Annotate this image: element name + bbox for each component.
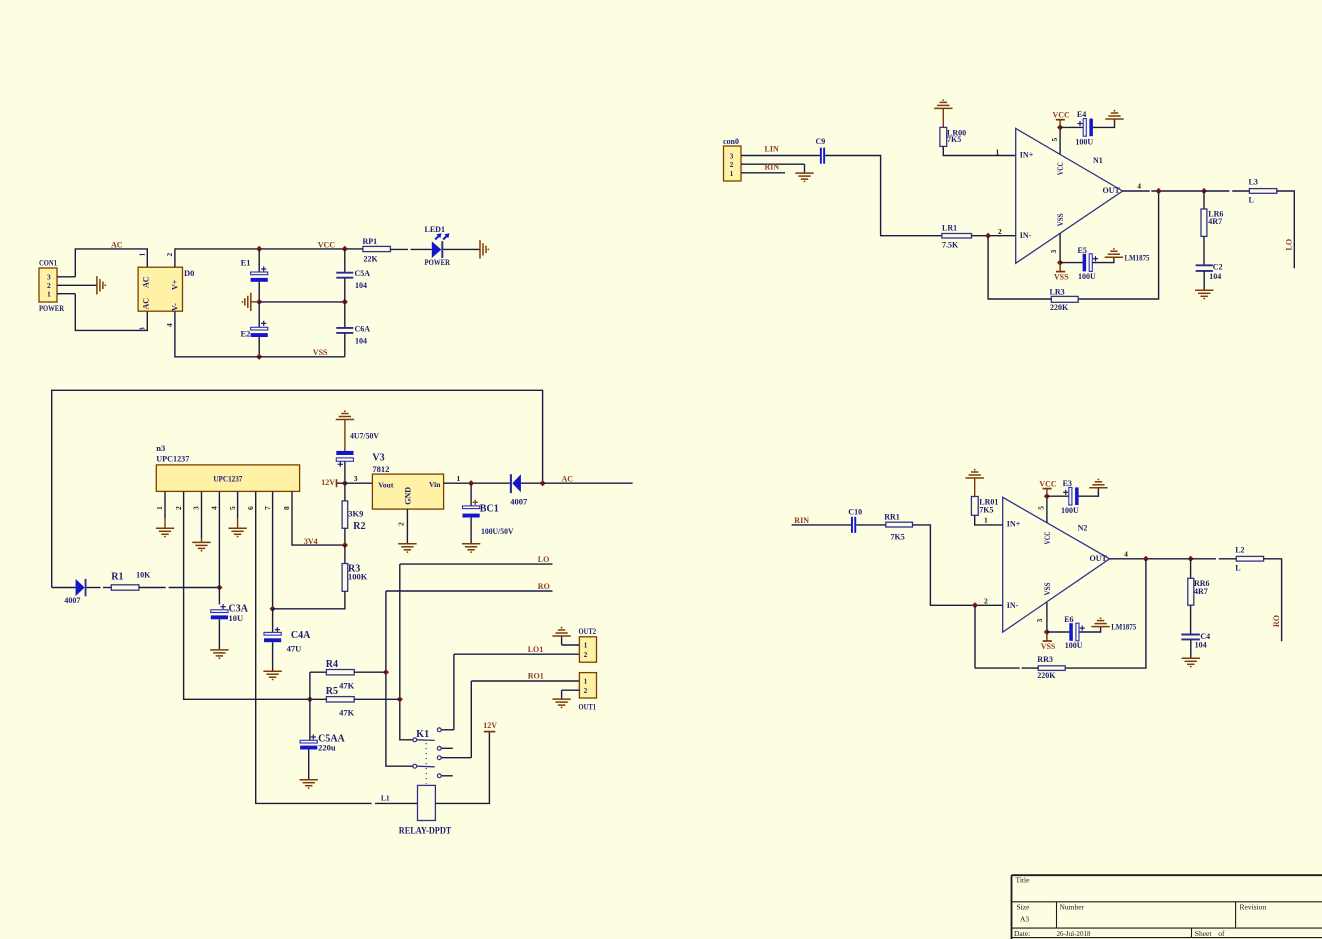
svg-text:12V: 12V	[321, 478, 335, 487]
svg-text:1: 1	[584, 678, 588, 686]
relay coil L1	[418, 785, 436, 820]
svg-text:Size: Size	[1017, 903, 1031, 912]
ground below C4A	[263, 671, 281, 680]
resistor LR01 7K5	[971, 478, 1002, 525]
pin 2 label N2	[984, 596, 988, 605]
diode 4007 (AC sense)	[510, 474, 543, 506]
svg-text:Vin: Vin	[429, 480, 441, 489]
svg-text:N1: N1	[1093, 156, 1103, 165]
capacitor C6A 104	[336, 302, 370, 357]
wire net RO1	[471, 672, 579, 682]
svg-text:4R7: 4R7	[1208, 217, 1222, 226]
N1 pin3 stub	[1049, 233, 1060, 263]
net label RO (right)	[1272, 615, 1281, 627]
svg-text:100K: 100K	[348, 572, 368, 582]
svg-text:LO: LO	[538, 555, 550, 564]
capacitor C10	[848, 507, 862, 532]
svg-text:VSS: VSS	[1041, 642, 1056, 651]
svg-text:1: 1	[47, 290, 51, 299]
capacitor C5A 104	[336, 249, 370, 302]
ground above LR00	[934, 99, 952, 108]
svg-text:LO1: LO1	[528, 645, 544, 654]
svg-text:5: 5	[1050, 138, 1059, 142]
connector con0	[723, 137, 805, 181]
junction N2 OUT RR6	[1187, 556, 1193, 562]
svg-text:Date:: Date:	[1014, 929, 1030, 938]
relay K1 switch B	[413, 764, 435, 768]
UPC1237 pins 1-8	[155, 491, 292, 518]
svg-text:E3: E3	[1063, 479, 1072, 488]
wire RIN to C10	[792, 524, 851, 526]
wire mid rail to C5A/C6A	[259, 301, 345, 303]
wire LO to relay switch A	[400, 564, 413, 740]
pin 2 label N1	[998, 227, 1002, 236]
ground below C4	[1182, 658, 1200, 667]
capacitor E3 100U	[1047, 479, 1099, 515]
net label VSS	[313, 348, 328, 357]
svg-text:4R7: 4R7	[1194, 587, 1208, 596]
svg-text:3: 3	[1049, 250, 1058, 254]
ground UPC1237 pin5	[228, 518, 246, 537]
resistor RP1 22K	[363, 237, 391, 263]
wire L3 to LO tag	[1277, 191, 1295, 268]
svg-text:CON1: CON1	[39, 258, 57, 268]
inductor L2	[1235, 546, 1263, 573]
connector OUT1	[562, 673, 597, 712]
resistor R1 10K	[111, 571, 151, 591]
ground above LR01	[966, 469, 984, 478]
wire RP1 to LED1	[390, 248, 431, 250]
svg-text:D0: D0	[184, 268, 194, 278]
capacitor C4 104	[1181, 632, 1210, 659]
junction N2 OUT feedback	[1143, 556, 1149, 562]
svg-text:100U: 100U	[1078, 272, 1096, 281]
svg-text:LR3: LR3	[1050, 287, 1065, 296]
svg-text:Revision: Revision	[1240, 903, 1267, 912]
wire V3 Vin to BC1	[444, 474, 510, 483]
inductor L3	[1249, 178, 1277, 205]
svg-text:10K: 10K	[136, 571, 151, 580]
wire UPC1237 pin7 down	[272, 518, 274, 608]
svg-text:R1: R1	[111, 572, 123, 583]
wire UPC1237 pin2 to R5 row	[184, 518, 310, 699]
svg-text:L3: L3	[1249, 178, 1258, 187]
svg-text:47K: 47K	[339, 708, 355, 718]
wire LO1 column	[453, 654, 455, 730]
svg-text:4007: 4007	[64, 596, 80, 605]
svg-text:C4: C4	[1200, 632, 1210, 641]
svg-text:26-Jul-2018: 26-Jul-2018	[1057, 929, 1091, 938]
svg-text:4007: 4007	[510, 496, 528, 506]
svg-text:VCC: VCC	[1056, 162, 1065, 175]
svg-text:2: 2	[584, 651, 588, 659]
wire R4/R5 left vertical to C5AA	[309, 672, 311, 740]
svg-text:IN-: IN-	[1007, 601, 1019, 610]
capacitor C2 104	[1196, 262, 1223, 290]
svg-text:220K: 220K	[1037, 671, 1056, 680]
svg-text:of: of	[1218, 929, 1225, 938]
svg-text:47K: 47K	[339, 681, 355, 691]
svg-text:RELAY-DPDT: RELAY-DPDT	[399, 827, 452, 837]
connector CON1	[39, 258, 97, 313]
svg-text:4U7/50V: 4U7/50V	[350, 431, 380, 441]
svg-text:E1: E1	[241, 257, 251, 267]
wire OUT to L3	[1204, 190, 1249, 192]
svg-text:C6A: C6A	[355, 325, 371, 334]
ground right of E6	[1091, 617, 1109, 626]
svg-text:100U: 100U	[1061, 506, 1079, 515]
svg-text:3: 3	[354, 474, 358, 483]
resistor LR1 7.5K	[942, 224, 1016, 250]
wire CON1 pin3 to D0 pin1 (net AC)	[75, 249, 147, 277]
pin 1 label N2	[984, 516, 988, 525]
svg-text:1: 1	[155, 506, 164, 510]
resistor RR3 220K	[975, 605, 1065, 680]
svg-text:C9: C9	[816, 137, 826, 146]
capacitor BC1 100U/50V	[463, 483, 515, 544]
svg-text:RIN: RIN	[794, 516, 809, 525]
svg-text:5: 5	[1037, 506, 1046, 510]
svg-text:4: 4	[210, 506, 219, 510]
feedback wire N2	[1065, 559, 1146, 668]
ground below C5AA	[300, 780, 318, 789]
junction mid rail at C6A	[342, 299, 348, 305]
svg-text:RR3: RR3	[1037, 655, 1053, 664]
IC n3 UPC1237	[156, 443, 299, 491]
svg-text:22K: 22K	[364, 255, 379, 264]
wire net LO	[400, 555, 553, 564]
svg-text:100U/50V: 100U/50V	[481, 526, 514, 536]
svg-text:RIN: RIN	[765, 163, 780, 172]
wire N1 OUT	[1123, 181, 1204, 191]
svg-text:OUT: OUT	[1090, 554, 1108, 563]
ground below OUT1	[552, 699, 570, 708]
wire RR1 to IN- N2	[913, 525, 1003, 605]
wire LIN to C9	[763, 155, 820, 157]
net label LIN	[765, 145, 779, 154]
relay linkage dotted line	[425, 743, 427, 784]
svg-text:3V4: 3V4	[304, 537, 318, 546]
capacitor C4A 47U	[264, 609, 311, 671]
svg-text:1: 1	[584, 642, 588, 650]
ground right of E3	[1089, 479, 1107, 488]
bridge rectifier D0	[138, 253, 195, 332]
svg-text:LED1: LED1	[425, 225, 445, 234]
net label AC	[111, 241, 123, 250]
wire L2 to RO tag	[1264, 559, 1282, 642]
svg-text:AC: AC	[142, 298, 151, 310]
svg-text:C10: C10	[848, 507, 862, 516]
junction AC node	[539, 480, 545, 486]
junction IN- N1	[985, 233, 991, 239]
wire UPC1237 pin6 to relay coil	[256, 518, 418, 803]
svg-text:E6: E6	[1064, 615, 1073, 624]
resistor LR3 220K	[988, 236, 1078, 312]
ground right of E5	[1105, 248, 1123, 257]
resistor R2 3K9	[342, 483, 365, 545]
svg-text:2: 2	[174, 506, 183, 510]
junction LO column at R5	[397, 696, 403, 702]
svg-text:VSS: VSS	[313, 348, 328, 357]
relay contact NC-A	[437, 746, 452, 750]
svg-text:OUT2: OUT2	[579, 627, 597, 636]
svg-text:104: 104	[1195, 641, 1207, 650]
wire top rail of protection circuit	[52, 390, 543, 587]
resistor RR6 4R7	[1188, 559, 1210, 634]
svg-text:E2: E2	[241, 328, 251, 338]
N2 pin5 stub	[1037, 496, 1047, 522]
op-amp N1 LM1875	[1016, 128, 1123, 263]
V3 pin2 to ground	[397, 509, 417, 553]
svg-text:2: 2	[165, 253, 174, 257]
relay contact NC-B	[437, 774, 452, 778]
svg-text:1: 1	[996, 147, 1000, 156]
relay contact NO-A	[437, 728, 454, 732]
svg-text:C4A: C4A	[291, 630, 311, 641]
svg-text:RR1: RR1	[884, 512, 900, 521]
capacitor E6 100U	[1047, 615, 1101, 650]
svg-text:UPC1237: UPC1237	[156, 453, 190, 463]
svg-text:2: 2	[584, 687, 588, 695]
junction RO column at R4	[383, 669, 389, 675]
svg-text:100U: 100U	[1075, 137, 1093, 146]
svg-text:12V: 12V	[483, 721, 497, 730]
junction 12V node	[342, 480, 348, 486]
power port VSS (N1)	[1054, 259, 1069, 281]
capacitor E2 (electrolytic)	[241, 302, 268, 357]
LED LED1 POWER	[425, 225, 451, 267]
svg-text:AC: AC	[562, 474, 574, 483]
svg-text:K1: K1	[416, 729, 429, 740]
wire AC net	[543, 474, 633, 483]
capacitor E5 100U	[1060, 246, 1114, 281]
svg-text:2: 2	[998, 227, 1002, 236]
svg-text:1: 1	[138, 253, 147, 257]
svg-text:3: 3	[1035, 619, 1044, 623]
svg-text:RO: RO	[1272, 615, 1281, 627]
junction mid rail at E1	[256, 299, 262, 305]
N2 pin3 stub	[1035, 603, 1047, 633]
power port VCC (N2)	[1039, 479, 1057, 499]
wire diode to R1	[87, 587, 112, 589]
label L1	[381, 794, 390, 803]
svg-text:C2: C2	[1213, 262, 1223, 271]
connector OUT2	[562, 627, 597, 662]
svg-text:5: 5	[228, 506, 237, 510]
resistor LR6 4R7	[1201, 191, 1223, 265]
svg-text:E5: E5	[1078, 246, 1087, 255]
svg-text:VCC: VCC	[318, 240, 336, 249]
svg-text:4: 4	[1124, 549, 1128, 558]
svg-text:L1: L1	[381, 794, 390, 803]
svg-text:3K9: 3K9	[348, 509, 363, 519]
svg-text:3: 3	[730, 152, 734, 160]
svg-text:7: 7	[263, 506, 272, 510]
svg-text:V+: V+	[171, 279, 180, 290]
power port VSS (N2)	[1041, 629, 1056, 651]
junction R5 left	[307, 696, 313, 702]
svg-text:4: 4	[1137, 181, 1141, 190]
junction BC1 top	[468, 480, 474, 486]
svg-text:104: 104	[355, 337, 367, 346]
label LM1875 (N2)	[1111, 622, 1136, 632]
wire R1 to UPC1237 pin4	[139, 587, 220, 589]
net label LO (right)	[1285, 239, 1294, 251]
svg-text:7K5: 7K5	[947, 135, 961, 144]
resistor R5 47K	[310, 686, 400, 717]
junction at C5A top	[342, 246, 348, 252]
wire C10 to RR1	[856, 524, 886, 526]
capacitor C9	[816, 137, 826, 164]
ground UPC1237 pin3	[192, 518, 210, 551]
svg-text:100U: 100U	[1065, 641, 1083, 650]
wire D0 pin2 to VCC rail	[175, 249, 363, 267]
svg-text:7K5: 7K5	[979, 505, 993, 514]
svg-text:con0: con0	[723, 137, 739, 146]
svg-text:OUT: OUT	[1103, 186, 1121, 195]
svg-text:LIN: LIN	[765, 145, 779, 154]
capacitor C3A 10U	[211, 604, 249, 650]
svg-text:7812: 7812	[372, 464, 389, 474]
junction N1 OUT feedback	[1155, 188, 1161, 194]
wire coil to 12V	[435, 732, 489, 804]
power port 12V	[321, 478, 345, 487]
capacitor 4U7/50V	[336, 420, 379, 484]
svg-text:RP1: RP1	[363, 237, 378, 246]
wire RO1 column	[470, 681, 472, 758]
svg-text:VSS: VSS	[1056, 213, 1065, 226]
svg-text:1: 1	[984, 516, 988, 525]
junction VSS rail at E2	[256, 354, 262, 360]
svg-text:104: 104	[355, 281, 367, 290]
net label 3V4	[304, 537, 318, 546]
svg-text:N2: N2	[1078, 524, 1088, 533]
label RELAY-DPDT	[399, 827, 452, 837]
svg-text:1: 1	[457, 474, 461, 483]
svg-text:VSS: VSS	[1054, 273, 1069, 282]
regulator V3 7812	[372, 453, 443, 509]
svg-text:3: 3	[138, 327, 147, 331]
junction N1 OUT LR6	[1201, 188, 1207, 194]
svg-text:220K: 220K	[1050, 303, 1069, 312]
svg-text:IN+: IN+	[1007, 520, 1021, 529]
svg-text:C5A: C5A	[355, 269, 371, 278]
svg-text:A3: A3	[1020, 914, 1029, 923]
svg-text:L: L	[1235, 563, 1240, 572]
svg-text:LR1: LR1	[942, 224, 957, 233]
svg-text:POWER: POWER	[39, 303, 65, 313]
svg-text:IN-: IN-	[1020, 231, 1032, 240]
junction pin7/R3	[269, 606, 275, 612]
ground mid rail	[242, 293, 260, 311]
relay contact NO-B	[437, 756, 471, 760]
capacitor C5AA 220u	[300, 733, 345, 779]
svg-text:2: 2	[730, 161, 734, 169]
svg-text:RO: RO	[538, 582, 550, 591]
ground right of E4	[1105, 110, 1123, 119]
svg-text:R2: R2	[353, 521, 365, 532]
svg-text:7K5: 7K5	[891, 533, 905, 542]
wire net RO	[386, 582, 553, 591]
svg-text:6: 6	[246, 506, 255, 510]
svg-text:RO1: RO1	[528, 672, 544, 681]
wire UPC1237 pin8 to 3V4 node	[292, 518, 345, 545]
ground UPC1237 pin1	[156, 518, 174, 537]
wire LED1 to ground	[443, 248, 480, 250]
wire OUT to L2	[1191, 558, 1237, 560]
power port VCC (N1)	[1053, 111, 1071, 131]
svg-text:L2: L2	[1235, 546, 1244, 555]
svg-text:E4: E4	[1077, 110, 1086, 119]
svg-text:Vout: Vout	[378, 480, 394, 489]
svg-text:GND: GND	[403, 487, 412, 505]
capacitor E4 100U	[1060, 110, 1114, 146]
svg-text:2: 2	[397, 522, 406, 526]
svg-text:UPC1237: UPC1237	[213, 474, 242, 483]
svg-text:IN+: IN+	[1020, 150, 1034, 159]
svg-text:VCC: VCC	[1053, 111, 1071, 120]
junction R1/pin4	[216, 584, 222, 590]
feedback wire N1	[1078, 191, 1158, 299]
svg-text:LO: LO	[1285, 239, 1294, 251]
svg-text:POWER: POWER	[425, 258, 451, 267]
wire C9 to IN- row	[825, 156, 942, 236]
svg-text:220u: 220u	[318, 742, 336, 752]
ground con0 pin2	[795, 164, 813, 182]
svg-text:47U: 47U	[287, 644, 302, 654]
svg-text:L: L	[1249, 196, 1254, 205]
svg-text:104: 104	[1209, 272, 1221, 281]
pin 1 label N1	[996, 147, 1000, 156]
op-amp N2 LM1875	[1003, 497, 1110, 632]
resistor RR1 7K5	[884, 512, 912, 541]
svg-text:4: 4	[165, 323, 174, 327]
svg-text:V-: V-	[171, 303, 180, 311]
ground below C2	[1195, 290, 1213, 299]
ground below BC1	[462, 544, 480, 553]
ground below C3A	[210, 650, 228, 659]
wire UPC1237 pin4 down to C3A	[218, 518, 220, 604]
svg-text:3: 3	[192, 506, 201, 510]
svg-text:VSS: VSS	[1043, 582, 1052, 595]
svg-text:n3: n3	[156, 443, 165, 453]
net label RIN	[765, 163, 780, 172]
svg-text:LM1875: LM1875	[1111, 622, 1136, 632]
wire D0 pin4 VSS rail	[175, 311, 345, 357]
svg-text:7.5K: 7.5K	[942, 240, 959, 249]
wire N2 OUT	[1110, 549, 1191, 559]
title block	[1012, 875, 1322, 939]
svg-text:2: 2	[984, 596, 988, 605]
svg-text:OUT1: OUT1	[579, 702, 597, 711]
svg-text:10U: 10U	[229, 613, 244, 623]
junction IN- N2	[972, 602, 978, 608]
svg-text:Sheet: Sheet	[1195, 929, 1213, 938]
resistor R4 47K	[310, 659, 386, 690]
resistor LR00 7K5	[940, 108, 1016, 155]
svg-text:Number: Number	[1060, 903, 1085, 912]
wire 12V node to V3	[345, 474, 373, 483]
ground on CON1 pin 2	[97, 276, 106, 294]
ground right of LED1	[480, 240, 489, 258]
relay K1 switch A	[413, 729, 435, 742]
svg-text:1: 1	[730, 170, 734, 178]
label LM1875 (N1)	[1125, 252, 1150, 262]
svg-text:BC1: BC1	[480, 504, 499, 515]
net label RIN (N2)	[794, 516, 809, 525]
svg-text:R5: R5	[326, 686, 338, 697]
svg-text:AC: AC	[111, 241, 123, 250]
